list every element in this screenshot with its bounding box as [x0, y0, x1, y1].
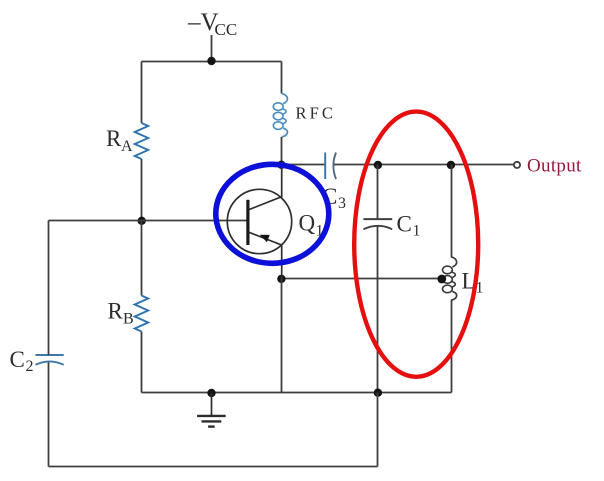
highlight: blue ellipse around Q1: [216, 164, 329, 263]
inductor RFC: [273, 94, 287, 138]
wire: emitter node to ground rail: [281, 279, 283, 393]
wire: base node to RB: [141, 221, 143, 296]
junction: L1 top node: [447, 161, 455, 169]
label Q1: [299, 211, 324, 240]
wire: left rail upper (top rail to RA): [141, 62, 143, 124]
transistor Q1 emitter lead: [249, 232, 282, 279]
transistor Q1 collector lead: [249, 165, 282, 210]
wire: top supply rail: [142, 61, 282, 63]
transistor Q1 base bar: [246, 200, 249, 245]
svg-text:2: 2: [26, 358, 34, 375]
wire: bottom feedback rail: [49, 466, 378, 468]
wire: right rail (top rail to RFC): [281, 62, 283, 94]
wire: collector node to C3: [282, 164, 326, 166]
svg-text:R: R: [106, 126, 122, 151]
wire: L1 bottom lead to ground rail: [451, 300, 453, 392]
wire: C3 to output terminal: [334, 164, 514, 166]
wire: C2 top to base wire corner: [48, 221, 50, 356]
svg-text:B: B: [123, 311, 134, 328]
wire: ground rail: [142, 392, 452, 394]
svg-text:C: C: [397, 212, 412, 237]
svg-text:3: 3: [338, 195, 346, 212]
highlight: red ellipse around tank circuit: [354, 112, 478, 377]
svg-text:Q: Q: [299, 211, 316, 236]
wire: RFC to collector node: [281, 137, 283, 165]
resistor RB: [135, 296, 149, 332]
label -VCC: [187, 9, 237, 39]
transistor Q1 body circle: [227, 189, 291, 253]
svg-text:RFC: RFC: [296, 103, 337, 122]
label RA: [106, 126, 133, 155]
wire: left feedback riser (bottom to C2): [48, 362, 50, 467]
resistor RA: [135, 123, 149, 159]
junction: C1 top node: [374, 161, 382, 169]
svg-text:CC: CC: [215, 20, 238, 39]
junction: ground tap: [207, 389, 215, 397]
capacitor C1: [363, 219, 392, 229]
label C1: [397, 212, 421, 240]
capacitor C3: [325, 153, 336, 180]
inductor L1: [443, 257, 457, 301]
junction: collector node: [277, 161, 285, 169]
svg-text:Output: Output: [527, 156, 582, 177]
output terminal: [514, 162, 520, 168]
ground: [197, 393, 226, 427]
junction: C1 bottom / feedback node: [374, 389, 382, 397]
label C2: [10, 347, 34, 375]
wire: C1 top lead: [377, 165, 379, 220]
svg-text:A: A: [121, 138, 133, 155]
wire: C1 bottom lead to ground rail: [377, 226, 379, 392]
label RB: [108, 299, 134, 328]
junction: emitter node: [277, 275, 285, 283]
junction: VCC tap: [207, 57, 215, 65]
wire: RA to base node: [141, 159, 143, 221]
junction: L1 tap: [437, 275, 446, 284]
svg-text:C: C: [10, 347, 25, 372]
label C3: [322, 184, 346, 212]
transistor Q1 emitter arrow (PNP): [260, 235, 270, 243]
label L1: [462, 269, 484, 297]
svg-text:R: R: [108, 299, 124, 324]
capacitor C2: [36, 355, 64, 365]
wire: feedback drop (C1 node down): [377, 393, 379, 467]
junction: base node: [138, 217, 146, 225]
wire: L1 top lead: [451, 165, 453, 257]
wire: -VCC stub: [211, 35, 213, 62]
svg-text:1: 1: [413, 223, 421, 240]
wire: emitter node to L1 tap: [282, 278, 444, 280]
wire: base wire (corner to base node to transistor): [49, 220, 249, 222]
wire: RB to ground rail: [141, 332, 143, 393]
